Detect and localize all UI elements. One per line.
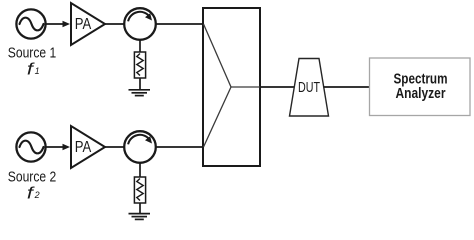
wire circulator 1 to combiner bbox=[156, 23, 203, 25]
wire PA2 to circulator 2 bbox=[104, 146, 125, 148]
wire PA1 to circulator 1 bbox=[104, 23, 125, 25]
circulator 1 bbox=[124, 8, 156, 40]
ground GND1 bbox=[129, 90, 151, 96]
svg-text:f: f bbox=[27, 185, 35, 203]
wire DUT to spectrum analyzer bbox=[324, 86, 370, 88]
source S2 (sine generator) bbox=[16, 132, 45, 161]
wire circulator 2 to termination R2 bbox=[139, 163, 141, 178]
amplifier PA1 bbox=[71, 3, 105, 45]
source S1 (sine generator) bbox=[16, 9, 45, 38]
power combiner box bbox=[203, 8, 260, 166]
wire R1 to ground bbox=[139, 78, 141, 90]
spectrum analyzer box bbox=[370, 58, 471, 116]
wire circulator 1 to termination R1 bbox=[139, 40, 141, 53]
arrow from S1 to PA1 bbox=[46, 21, 70, 28]
DUT (trapezoid) bbox=[290, 59, 329, 117]
svg-text:PA: PA bbox=[75, 16, 92, 33]
svg-text:PA: PA bbox=[75, 139, 92, 156]
resistor R1 (termination) bbox=[134, 52, 145, 78]
svg-text:DUT: DUT bbox=[298, 79, 320, 96]
ground GND2 bbox=[129, 214, 151, 220]
wire combiner to DUT bbox=[260, 86, 295, 88]
circulator 2 bbox=[124, 131, 156, 163]
resistor R2 (termination) bbox=[134, 177, 145, 203]
arrow from S2 to PA2 bbox=[46, 144, 70, 151]
svg-text:Source 2: Source 2 bbox=[8, 170, 57, 186]
svg-text:1: 1 bbox=[35, 66, 40, 76]
svg-text:2: 2 bbox=[34, 190, 40, 200]
wire circulator 2 to combiner bbox=[156, 146, 203, 148]
svg-text:Source 1: Source 1 bbox=[8, 46, 57, 62]
svg-text:f: f bbox=[27, 61, 35, 79]
svg-text:Analyzer: Analyzer bbox=[396, 86, 446, 102]
amplifier PA2 bbox=[71, 126, 105, 168]
wire R2 to ground bbox=[139, 203, 141, 213]
